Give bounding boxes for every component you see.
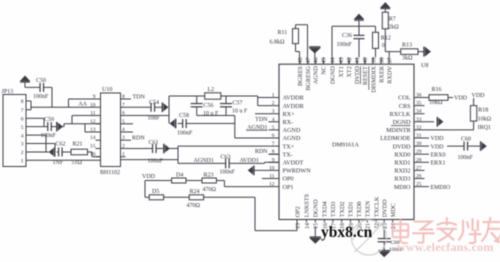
svg-text:C63: C63 (221, 154, 231, 160)
svg-text:C59: C59 (44, 117, 54, 123)
svg-text:15: 15 (90, 144, 96, 150)
wire VDD to C50 (24, 83, 26, 88)
arrow after C60 (468, 145, 480, 147)
DM9161A pin 48 BGRES (299, 57, 301, 64)
svg-text:10 u F: 10 u F (232, 109, 248, 115)
svg-text:DGND: DGND (329, 66, 336, 84)
wire AGND1 row with C63 (178, 162, 226, 164)
wire R13 to arrow (418, 51, 424, 53)
resistor R18 (473, 98, 475, 106)
svg-text:100nF: 100nF (220, 169, 236, 175)
svg-text:AA: AA (78, 102, 87, 108)
DM9161A pin 21 TXEN (366, 220, 368, 223)
DM9161A pin 18 TXD2 (341, 220, 343, 223)
svg-text:47: 47 (306, 57, 312, 63)
svg-text:2: 2 (272, 101, 275, 107)
wire TX vertical (177, 146, 179, 163)
svg-text:RX-: RX- (283, 119, 294, 126)
svg-text:TXD0: TXD0 (356, 201, 363, 217)
svg-text:RDN: RDN (255, 149, 268, 155)
wire U10.7 to C54 (126, 106, 152, 108)
svg-text:R21: R21 (73, 142, 83, 148)
svg-text:TXD4: TXD4 (322, 201, 329, 217)
arrow at pin 33 DGND (439, 118, 443, 125)
wire U10.6 to AVDD rail (126, 115, 170, 117)
arrow before C62 (49, 149, 53, 156)
capacitor C54 (150, 103, 152, 112)
svg-text:51Ω: 51Ω (72, 160, 83, 166)
svg-text:0: 0 (382, 43, 385, 49)
svg-text:MDINTR: MDINTR (386, 127, 411, 134)
DM9161A pin 46 AGND (314, 57, 316, 64)
svg-text:C56: C56 (204, 103, 214, 109)
svg-text:OP0: OP0 (283, 176, 294, 183)
capacitor C62 (57, 151, 59, 153)
wire R16 to VDD (448, 97, 453, 99)
svg-text:100nF: 100nF (177, 130, 193, 136)
svg-text:32: 32 (416, 125, 422, 131)
wire node AA to U10.10 (31, 106, 101, 108)
svg-text:10nF: 10nF (148, 116, 161, 122)
svg-text:AGND: AGND (283, 127, 301, 134)
arrow output U8 (425, 48, 430, 56)
svg-text:14: 14 (90, 135, 96, 141)
resistor R12 (375, 26, 377, 32)
wire C61 arrow to TX node (170, 148, 179, 150)
svg-text:AGND1: AGND1 (194, 158, 214, 164)
svg-text:12: 12 (90, 119, 96, 125)
svg-text:DVDD: DVDD (382, 199, 389, 217)
svg-text:4: 4 (21, 133, 24, 139)
svg-text:34: 34 (416, 109, 422, 115)
svg-text:35: 35 (416, 101, 422, 107)
svg-text:C60: C60 (461, 137, 471, 143)
svg-text:1: 1 (21, 159, 24, 165)
wire U10.13 row (85, 131, 101, 133)
svg-text:ERX0: ERX0 (431, 152, 446, 158)
DM9161A pin 22 TXCLK (375, 220, 377, 223)
wire JP13.5 to C59 (31, 126, 48, 128)
svg-text:31: 31 (416, 133, 422, 139)
svg-text:43: 43 (339, 57, 345, 63)
svg-text:EMDIO: EMDIO (431, 185, 451, 191)
svg-text:RXDV: RXDV (387, 66, 394, 84)
wire U10.2 to C61 (126, 148, 153, 150)
svg-text:5: 5 (272, 125, 275, 131)
svg-text:R23: R23 (204, 172, 214, 178)
svg-text:10kΩ: 10kΩ (478, 117, 492, 123)
capacitor C59 (47, 122, 49, 131)
svg-text:C57: C57 (233, 101, 243, 107)
resistor R24 (189, 195, 203, 200)
svg-text:TXCLK: TXCLK (373, 196, 380, 217)
diode D4 (172, 178, 186, 183)
svg-text:3kΩ: 3kΩ (402, 55, 413, 61)
svg-text:ERX1: ERX1 (431, 161, 446, 167)
svg-text:R12: R12 (381, 36, 391, 42)
svg-text:TXD2: TXD2 (339, 201, 346, 217)
svg-text:VDD: VDD (142, 174, 156, 180)
wire TX+ row to chip pin7 (178, 145, 279, 147)
capacitor C56 (196, 96, 198, 104)
svg-text:3: 3 (272, 109, 275, 115)
svg-text:2: 2 (21, 150, 24, 156)
svg-text:RXCLK: RXCLK (390, 111, 412, 118)
power symbol VDD above C36 (354, 14, 363, 19)
capacitor C63 (225, 158, 227, 168)
svg-text:10kΩ: 10kΩ (429, 100, 443, 106)
svg-text:DGND: DGND (393, 119, 411, 126)
svg-text:42: 42 (347, 57, 353, 63)
svg-text:100nF: 100nF (41, 133, 57, 139)
svg-text:8: 8 (21, 99, 24, 105)
DM9161A pin 41 DVDD (356, 57, 358, 64)
watermark circle logo (351, 220, 386, 255)
svg-text:XT2: XT2 (346, 66, 353, 77)
svg-text:LNKSTS: LNKSTS (304, 193, 311, 217)
svg-text:TXD3: TXD3 (330, 201, 337, 217)
svg-text:41: 41 (355, 57, 361, 63)
DM9161A pin 17 TXD3 (332, 220, 334, 223)
wire rail to chip AVDDR pins (257, 96, 259, 106)
DM9161A pin 16 TXD4 (323, 220, 325, 223)
svg-text:D5: D5 (152, 189, 159, 195)
svg-text:27: 27 (416, 165, 422, 171)
svg-text:15: 15 (314, 223, 320, 229)
ground at pin 46 (314, 53, 316, 57)
svg-text:ybx8.cn: ybx8.cn (321, 224, 373, 241)
power symbol VDD above R7 (381, 3, 390, 8)
svg-text:BGRES: BGRES (297, 66, 304, 87)
svg-text:48: 48 (298, 57, 304, 63)
svg-text:PWRDWN: PWRDWN (283, 168, 312, 175)
svg-text:9: 9 (93, 94, 96, 100)
svg-text:5: 5 (21, 125, 24, 131)
svg-text:VDD: VDD (431, 144, 445, 150)
DM9161A pin 42 XT2 (348, 57, 350, 64)
svg-text:AVDDR: AVDDR (283, 103, 305, 110)
DM9161A pin 45 NC (322, 57, 324, 64)
watermark red chinese characters (393, 218, 500, 243)
capacitor C58 (178, 123, 183, 125)
wire JP13.1 long bottom (31, 159, 101, 161)
transformer U10 BH1102 (101, 93, 121, 167)
svg-text:MDC: MDC (390, 203, 397, 217)
arrow after C54 (155, 106, 162, 108)
svg-text:470Ω: 470Ω (187, 203, 201, 209)
svg-text:COL: COL (398, 95, 411, 102)
wire VDD rail over C36 (332, 25, 376, 27)
svg-text:DVDD: DVDD (354, 66, 361, 84)
svg-text:30: 30 (416, 141, 422, 147)
svg-text:TDN: TDN (133, 95, 146, 101)
svg-text:36: 36 (416, 93, 422, 99)
svg-text:MDIO: MDIO (394, 184, 411, 191)
wire AVDD rail (169, 95, 205, 97)
wire AGND lower rail (197, 115, 235, 117)
arrow C58 left (170, 120, 174, 127)
svg-text:L2: L2 (208, 87, 215, 93)
DM9161A pin 47 BGRESG (307, 57, 309, 64)
DM9161A pin 40 RESET (364, 57, 366, 64)
svg-text:CRS: CRS (399, 103, 411, 110)
wire JP13.6 jog (31, 117, 44, 119)
svg-text:VDD: VDD (431, 136, 445, 142)
resistor R7 (382, 12, 388, 29)
svg-text:R7: R7 (389, 16, 396, 22)
capacitor C57 (225, 96, 227, 104)
svg-text:TDN: TDN (255, 117, 268, 123)
wire U10.9 branch (69, 98, 101, 100)
svg-text:C50: C50 (36, 78, 46, 84)
arrow after C59 (51, 126, 56, 128)
svg-text:R11: R11 (278, 30, 288, 36)
svg-text:RXD1: RXD1 (394, 160, 410, 167)
net label RDN at U10.3 (126, 139, 132, 141)
svg-text:9: 9 (272, 157, 275, 163)
svg-text:45: 45 (322, 57, 328, 63)
svg-text:BGRESG: BGRESG (305, 66, 312, 91)
wire VDD branch (144, 181, 146, 198)
DM9161A pin 37 RXDV (388, 57, 390, 64)
svg-text:RXER: RXER (379, 65, 386, 82)
wire R23 to chip OP1 (216, 180, 224, 182)
svg-text:R16: R16 (432, 87, 442, 93)
svg-text:38: 38 (380, 57, 386, 63)
svg-text:www.elecfans.com: www.elecfans.com (397, 240, 494, 254)
svg-text:BH1102: BH1102 (100, 170, 120, 176)
DM9161A pin 14 LNKSTS (305, 220, 307, 223)
svg-text:R18: R18 (478, 107, 488, 113)
wire JP13.3 jog (31, 143, 55, 145)
wire R24 to chip OP2 (204, 196, 255, 198)
wire pin30 to C60 (447, 145, 464, 147)
svg-text:25: 25 (416, 182, 422, 188)
svg-text:DM9161A: DM9161A (332, 142, 359, 149)
wire R11 to pins 48/47 (295, 25, 297, 29)
svg-text:10 u F: 10 u F (203, 111, 219, 117)
wire JP13.4 jog (31, 134, 46, 136)
svg-text:RXD0: RXD0 (394, 151, 410, 158)
capacitor C68 (383, 227, 385, 239)
wire C50 to node AA (44, 86, 52, 88)
svg-text:29: 29 (416, 149, 422, 155)
svg-text:XT1: XT1 (338, 66, 345, 77)
svg-text:100nF: 100nF (337, 42, 353, 48)
svg-text:6: 6 (272, 133, 275, 139)
svg-text:TX-: TX- (283, 151, 293, 158)
svg-text:RESET: RESET (362, 66, 369, 85)
svg-text:470Ω: 470Ω (203, 187, 217, 193)
capacitor C50 (39, 83, 41, 92)
svg-text:1NF: 1NF (53, 160, 64, 166)
DM9161A pin 13 OP2 (296, 220, 298, 223)
wire D4-R23 (186, 180, 202, 182)
svg-text:100nF: 100nF (33, 94, 49, 100)
svg-text:C61: C61 (149, 140, 159, 146)
arrow after C61 (156, 148, 163, 150)
svg-text:13: 13 (295, 223, 301, 229)
svg-text:3: 3 (21, 142, 24, 148)
svg-text:JP13: JP13 (2, 89, 14, 95)
wire JP13.2 to C62 (31, 151, 49, 153)
capacitor C60 (463, 142, 465, 151)
svg-text:C54: C54 (149, 100, 159, 106)
svg-text:U10: U10 (102, 87, 112, 93)
IC U9 DM9161A body (279, 64, 414, 219)
svg-text:LEDMODE: LEDMODE (380, 135, 410, 142)
svg-text:40: 40 (363, 57, 369, 63)
DM9161A pin 15 DGND (314, 220, 316, 223)
svg-text:AGND: AGND (313, 66, 320, 84)
svg-text:37: 37 (388, 57, 394, 63)
svg-text:33: 33 (416, 117, 422, 123)
svg-text:OP2: OP2 (294, 206, 301, 217)
svg-text:7: 7 (272, 141, 275, 147)
svg-text:TXD1: TXD1 (348, 201, 355, 217)
wire C58 to AGND rail (186, 123, 235, 125)
wire R7 down to pin 37 (384, 29, 386, 52)
power symbol VDD top-left (20, 76, 29, 81)
wire C63 to chip pin9 (229, 162, 264, 164)
svg-text:R13: R13 (402, 42, 412, 48)
net label TDN at U10.8 (126, 98, 132, 100)
svg-text:U8: U8 (421, 63, 428, 69)
svg-text:VDD: VDD (472, 93, 486, 99)
capacitor C36 (358, 26, 360, 35)
wire U10.11 (72, 115, 101, 117)
svg-text:13: 13 (90, 127, 96, 133)
svg-text:DVDD: DVDD (393, 143, 411, 150)
DM9161A pin 39 DISMDIX (372, 57, 374, 64)
DM9161A pin 23 DVDD (383, 220, 385, 223)
ground at pin 15 DGND (314, 227, 316, 238)
wire VDD to D5 (145, 196, 149, 198)
svg-text:C36: C36 (342, 33, 352, 39)
wire R21 to U10.15 (88, 151, 93, 153)
svg-text:OP1: OP1 (283, 184, 294, 191)
svg-text:6: 6 (21, 117, 24, 123)
resistor R21 (62, 151, 71, 153)
wire U10.12 row (64, 123, 101, 125)
svg-text:14: 14 (305, 223, 311, 229)
inductor L2 (205, 93, 221, 99)
svg-text:4: 4 (272, 117, 275, 123)
DM9161A pin 44 DGND (331, 57, 333, 64)
resistor R16 (429, 95, 448, 101)
svg-text:39: 39 (371, 57, 377, 63)
connector JP13 (3, 95, 26, 167)
svg-text:RDN: RDN (132, 136, 145, 142)
svg-text:C58: C58 (179, 113, 189, 119)
svg-text:11: 11 (90, 111, 96, 117)
DM9161A pin 19 TXD1 (349, 220, 351, 223)
svg-text:AVDDR: AVDDR (283, 95, 305, 102)
svg-text:16: 16 (90, 152, 96, 158)
svg-text:VDD: VDD (454, 96, 468, 102)
svg-text:TXEN: TXEN (365, 200, 372, 217)
svg-text:2kΩ: 2kΩ (388, 25, 399, 31)
DM9161A pin 24 MDC (392, 220, 394, 223)
svg-text:1: 1 (272, 93, 275, 99)
wire U10.1 long right (121, 159, 179, 161)
svg-text:NC: NC (321, 66, 328, 75)
svg-text:RXD3: RXD3 (394, 176, 410, 183)
svg-text:AVDDT: AVDDT (283, 160, 304, 167)
svg-text:46: 46 (314, 57, 320, 63)
svg-text:44: 44 (330, 57, 336, 63)
wire D5-R24 (164, 196, 190, 198)
svg-text:AGND: AGND (283, 135, 301, 142)
svg-text:D4: D4 (176, 172, 183, 178)
svg-text:10: 10 (269, 165, 275, 171)
svg-text:6.8kΩ: 6.8kΩ (270, 39, 286, 45)
svg-text:R24: R24 (190, 189, 200, 195)
wire JP13.8 to node AA (30, 101, 32, 110)
svg-text:DGND: DGND (313, 199, 320, 217)
svg-text:11: 11 (269, 174, 275, 180)
svg-text:10: 10 (90, 102, 96, 108)
svg-text:100nF: 100nF (458, 155, 474, 161)
svg-text:26: 26 (416, 174, 422, 180)
svg-text:RXD2: RXD2 (394, 168, 410, 175)
resistor R13 (401, 49, 418, 55)
diode D5 (149, 195, 163, 200)
svg-text:RX+: RX+ (283, 111, 296, 118)
DM9161A pin 20 TXD0 (358, 220, 360, 223)
resistor R23 (202, 178, 216, 183)
svg-text:TX+: TX+ (283, 143, 295, 150)
svg-text:IRQ1: IRQ1 (478, 125, 491, 131)
wire vertical rail junction (168, 96, 170, 124)
svg-text:28: 28 (416, 157, 422, 163)
capacitor C61 (152, 144, 154, 153)
DM9161A pin 38 RXER (380, 57, 382, 64)
svg-text:C62: C62 (56, 142, 66, 148)
resistor R11 (293, 29, 299, 44)
ground below C68 (379, 250, 390, 252)
svg-text:DISMDIX: DISMDIX (370, 66, 377, 93)
svg-text:7: 7 (21, 108, 24, 114)
wire C59 arrow to U10.12 (63, 126, 65, 128)
DM9161A pin 43 XT1 (340, 57, 342, 64)
